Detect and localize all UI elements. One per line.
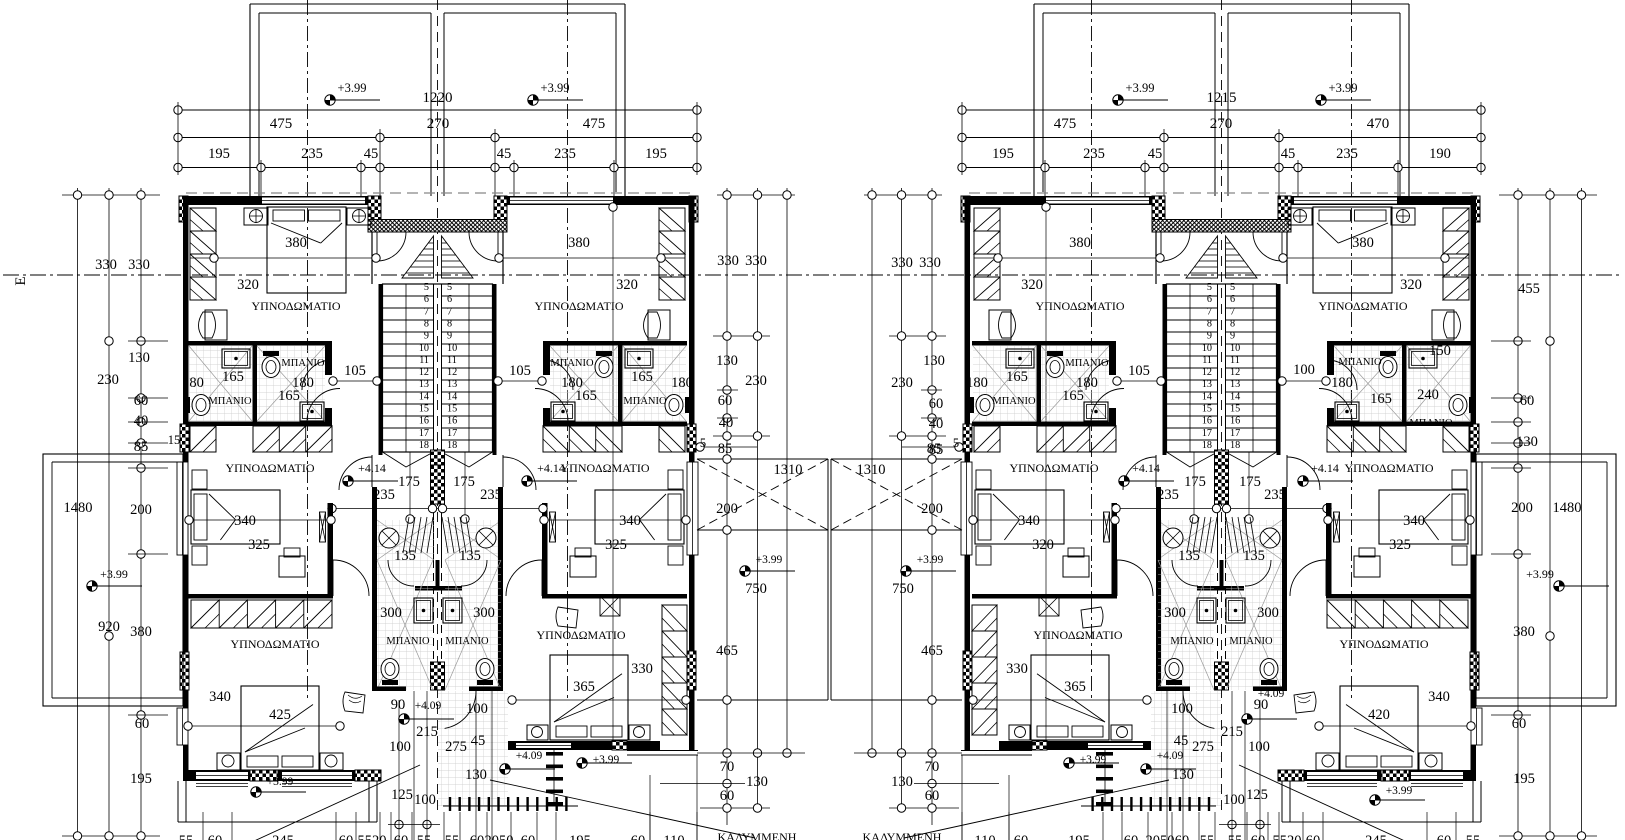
svg-text:45: 45	[1174, 733, 1189, 749]
svg-text:+4.14: +4.14	[1311, 461, 1339, 475]
veranda slab double line	[627, 750, 698, 752]
svg-text:+4.09: +4.09	[516, 750, 543, 762]
svg-text:195: 195	[208, 146, 230, 162]
ground slab below left unit	[178, 821, 377, 823]
svg-text:85: 85	[134, 439, 149, 455]
svg-text:16: 16	[419, 416, 429, 427]
svg-text:18: 18	[419, 440, 429, 451]
svg-text:195: 195	[130, 771, 152, 787]
svg-text:380: 380	[568, 235, 590, 251]
svg-text:235: 235	[1336, 146, 1358, 162]
svg-text:180: 180	[966, 375, 988, 391]
70/130/60 cluster right of building	[723, 779, 731, 787]
svg-text:8: 8	[1207, 318, 1212, 329]
svg-text:ΥΠΝΟΔΩΜΑΤΙΟ: ΥΠΝΟΔΩΜΑΤΙΟ	[1035, 299, 1124, 313]
svg-text:+3.99: +3.99	[917, 554, 944, 566]
right wall window	[687, 462, 698, 555]
stair treads	[383, 284, 493, 452]
bedside tables bottom bedroom	[217, 753, 240, 770]
left patio outer rectangle	[43, 454, 183, 706]
desk middle bedroom	[279, 556, 305, 577]
svg-text:465: 465	[716, 643, 738, 659]
svg-text:ΥΠΝΟΔΩΜΑΤΙΟ: ΥΠΝΟΔΩΜΑΤΙΟ	[534, 299, 623, 313]
hall dim 105 right unit	[497, 380, 543, 382]
svg-text:ΥΠΝΟΔΩΜΑΤΙΟ: ΥΠΝΟΔΩΜΑΤΙΟ	[1009, 461, 1098, 475]
svg-text:200: 200	[716, 501, 738, 517]
svg-text:10: 10	[1230, 343, 1240, 354]
svg-text:+4.14: +4.14	[358, 461, 386, 475]
bed bottom right unit 365	[550, 655, 628, 740]
bathroom divider wall	[253, 345, 258, 422]
svg-text:+4.14: +4.14	[537, 461, 565, 475]
svg-text:130: 130	[891, 774, 913, 790]
level markers +3.99/+4.09/+4.14	[325, 95, 380, 105]
svg-text:ΥΠΝΟΔΩΜΑΤΙΟ: ΥΠΝΟΔΩΜΑΤΙΟ	[225, 461, 314, 475]
svg-text:130: 130	[1172, 767, 1194, 783]
svg-text:130: 130	[716, 353, 738, 369]
svg-text:475: 475	[1054, 116, 1077, 132]
svg-text:15: 15	[1230, 404, 1240, 415]
svg-text:340: 340	[1403, 513, 1425, 529]
svg-text:5: 5	[1207, 282, 1212, 293]
svg-text:16: 16	[1202, 416, 1212, 427]
svg-text:180: 180	[671, 375, 693, 391]
svg-text:165: 165	[575, 388, 597, 404]
svg-text:ΜΠΑΝΙΟ: ΜΠΑΝΙΟ	[1229, 636, 1273, 647]
closet hatch band bottom bedroom	[191, 600, 332, 628]
dim row 475/270/475 y137	[178, 137, 697, 139]
svg-text:135: 135	[1178, 548, 1200, 564]
bathroom door arcs	[302, 360, 332, 390]
closet strip top bedroom right unit	[659, 208, 685, 300]
hall door arcs right unit	[506, 560, 542, 596]
svg-text:11: 11	[1230, 355, 1240, 366]
svg-text:195: 195	[1068, 833, 1090, 840]
svg-text:11: 11	[419, 355, 429, 366]
svg-text:18: 18	[1230, 440, 1240, 451]
bottom exterior wall left unit	[183, 770, 380, 781]
svg-text:ΜΠΑΝΙΟ: ΜΠΑΝΙΟ	[208, 396, 252, 407]
svg-text:105: 105	[344, 363, 366, 379]
svg-text:200: 200	[921, 501, 943, 517]
svg-text:270: 270	[1210, 116, 1233, 132]
corner insulation top-right	[689, 196, 698, 222]
svg-text:70: 70	[925, 759, 940, 775]
svg-text:110: 110	[974, 833, 995, 840]
svg-text:ΜΠΑΝΙΟ: ΜΠΑΝΙΟ	[445, 636, 489, 647]
svg-text:45: 45	[471, 733, 486, 749]
svg-text:100: 100	[414, 792, 436, 808]
svg-text:380: 380	[1069, 235, 1091, 251]
svg-text:320: 320	[616, 277, 638, 293]
pillow icon	[343, 692, 365, 713]
desk right unit	[570, 556, 596, 577]
svg-text:ΥΠΝΟΔΩΜΑΤΙΟ: ΥΠΝΟΔΩΜΑΤΙΟ	[230, 637, 319, 651]
svg-text:17: 17	[419, 428, 429, 439]
leader diagonal lines	[252, 765, 420, 840]
top exterior wall right wing	[497, 196, 694, 205]
svg-text:14: 14	[447, 391, 457, 402]
svg-text:5: 5	[447, 282, 452, 293]
svg-text:15: 15	[447, 404, 457, 415]
svg-text:195: 195	[645, 146, 667, 162]
svg-text:ΜΠΑΝΙΟ: ΜΠΑΝΙΟ	[281, 358, 325, 369]
svg-text:+3.99: +3.99	[541, 81, 570, 95]
svg-text:45: 45	[497, 146, 512, 162]
svg-text:1480: 1480	[1553, 500, 1582, 516]
bathroom band top wall	[188, 341, 332, 346]
svg-text:ΜΠΑΝΙΟ: ΜΠΑΝΙΟ	[1409, 418, 1453, 429]
bed middle bedroom 340	[191, 490, 280, 544]
svg-text:9: 9	[447, 331, 452, 342]
svg-text:9: 9	[424, 331, 429, 342]
svg-text:130: 130	[128, 350, 150, 366]
svg-text:470: 470	[1367, 116, 1390, 132]
svg-text:7: 7	[424, 306, 429, 317]
right wall insulation blocks	[687, 424, 696, 452]
svg-text:60: 60	[208, 833, 223, 840]
stair strings	[433, 284, 435, 452]
wall middle bedroom / hall	[328, 503, 334, 596]
svg-text:55: 55	[445, 833, 460, 840]
svg-text:180: 180	[1331, 375, 1353, 391]
svg-text:200: 200	[130, 502, 152, 518]
svg-text:135: 135	[1243, 548, 1265, 564]
svg-text:330: 330	[891, 255, 913, 271]
svg-text:9: 9	[1230, 331, 1235, 342]
svg-text:60: 60	[631, 833, 646, 840]
wall hall/middle bedroom right unit	[542, 503, 548, 596]
svg-text:165: 165	[1370, 391, 1392, 407]
svg-text:320: 320	[1400, 277, 1422, 293]
roof outline outer rectangle	[249, 4, 251, 196]
hall dim line 235 y508	[332, 508, 438, 510]
svg-text:12: 12	[1230, 367, 1240, 378]
svg-text:1480: 1480	[64, 500, 93, 516]
svg-text:330: 330	[631, 661, 653, 677]
svg-text:13: 13	[447, 379, 457, 390]
porch dim witness lines	[413, 691, 415, 840]
svg-text:ΥΠΝΟΔΩΜΑΤΙΟ: ΥΠΝΟΔΩΜΑΤΙΟ	[251, 299, 340, 313]
terrace columns top circles	[717, 194, 795, 196]
svg-text:60: 60	[929, 396, 944, 412]
svg-text:300: 300	[1257, 605, 1279, 621]
svg-text:60: 60	[339, 833, 354, 840]
svg-text:465: 465	[921, 643, 943, 659]
svg-text:320: 320	[1032, 537, 1054, 553]
stair recess crosshatch wall band	[368, 220, 507, 233]
bottom wall windows left unit	[196, 772, 248, 779]
landing door arc left unit	[377, 232, 406, 261]
svg-text:135: 135	[459, 548, 481, 564]
svg-text:60: 60	[718, 393, 733, 409]
svg-text:125: 125	[1246, 787, 1268, 803]
svg-text:165: 165	[1006, 369, 1028, 385]
left exterior wall	[183, 196, 189, 462]
svg-text:ΜΠΑΝΙΟ: ΜΠΑΝΙΟ	[550, 358, 594, 369]
svg-text:105: 105	[1128, 363, 1150, 379]
svg-text:14: 14	[1202, 391, 1212, 402]
svg-text:320: 320	[237, 277, 259, 293]
svg-text:5520: 5520	[358, 833, 387, 840]
svg-text:60: 60	[1014, 833, 1029, 840]
party wall lower checker sections	[431, 465, 445, 504]
entrance porch tiles	[438, 691, 508, 806]
roof outline inner left rectangle	[258, 13, 260, 196]
bedside tables and lamps top-left	[244, 208, 268, 225]
svg-text:13: 13	[1202, 379, 1212, 390]
svg-text:105: 105	[509, 363, 531, 379]
svg-text:55: 55	[179, 833, 194, 840]
svg-text:+3.99: +3.99	[593, 754, 620, 766]
svg-text:45: 45	[364, 146, 379, 162]
svg-text:130: 130	[465, 767, 487, 783]
dim line through bed y520	[188, 519, 333, 521]
svg-text:16: 16	[1230, 416, 1240, 427]
svg-text:5: 5	[700, 436, 706, 450]
svg-text:ΜΠΑΝΙΟ: ΜΠΑΝΙΟ	[1170, 636, 1214, 647]
svg-text:1310: 1310	[774, 462, 803, 478]
toilet bathroom 2	[262, 357, 280, 378]
svg-text:60: 60	[720, 788, 735, 804]
svg-text:200: 200	[1511, 500, 1533, 516]
svg-text:330: 330	[95, 257, 117, 273]
unit centreline dash-dot x307	[307, 0, 309, 700]
desk with chair top-left unit	[205, 310, 227, 340]
corner insulation top-left	[179, 196, 188, 222]
svg-text:14: 14	[1230, 391, 1240, 402]
svg-text:ΜΠΑΝΙΟ: ΜΠΑΝΙΟ	[386, 636, 430, 647]
left wall window upper	[177, 462, 188, 555]
hall dim 235 right unit	[438, 508, 544, 510]
svg-text:275: 275	[445, 739, 467, 755]
terrace dim columns	[726, 188, 728, 825]
svg-text:60: 60	[1520, 393, 1535, 409]
svg-text:60: 60	[925, 788, 940, 804]
svg-text:+3.99: +3.99	[1080, 754, 1107, 766]
svg-text:17: 17	[447, 428, 457, 439]
svg-text:10: 10	[447, 343, 457, 354]
svg-text:135: 135	[394, 548, 416, 564]
svg-text:60: 60	[135, 716, 150, 732]
svg-text:40: 40	[929, 416, 944, 432]
bed middle bedroom right unit	[595, 490, 684, 544]
stair bottom arrows	[383, 452, 434, 467]
desk with chair top right unit	[648, 310, 670, 340]
bathroom/hall wall	[325, 345, 332, 375]
landing diagonal hatch	[403, 517, 409, 553]
svg-text:195: 195	[992, 146, 1014, 162]
svg-text:240: 240	[1417, 387, 1439, 403]
svg-text:230: 230	[97, 372, 119, 388]
svg-text:6: 6	[1207, 294, 1212, 305]
right exterior wall right unit	[689, 196, 695, 462]
stair enclosure side walls	[379, 284, 383, 455]
landing winder hatch left	[402, 236, 434, 278]
svg-text:175: 175	[398, 474, 420, 490]
svg-text:15: 15	[419, 404, 429, 415]
svg-text:+3.99: +3.99	[1329, 81, 1358, 95]
svg-text:2050: 2050	[485, 833, 514, 840]
svg-text:165: 165	[1062, 388, 1084, 404]
svg-text:ΜΠΑΝΙΟ: ΜΠΑΝΙΟ	[1065, 358, 1109, 369]
svg-text:330: 330	[745, 253, 767, 269]
svg-text:180: 180	[182, 375, 204, 391]
grid axis E horizontal dash-dot line	[3, 274, 1622, 276]
svg-text:60: 60	[1175, 833, 1190, 840]
unit centreline dash-dot x567	[567, 0, 569, 700]
svg-text:365: 365	[573, 679, 595, 695]
closet hatch above middle bedroom	[253, 426, 332, 452]
svg-text:230: 230	[745, 373, 767, 389]
svg-text:380: 380	[285, 235, 307, 251]
svg-text:15: 15	[168, 433, 181, 447]
svg-text:+3.99: +3.99	[267, 776, 294, 788]
svg-text:330: 330	[919, 255, 941, 271]
landing side walls	[371, 232, 373, 284]
svg-text:100: 100	[466, 701, 488, 717]
bedside tables right unit middle bedroom	[668, 470, 683, 489]
svg-text:60: 60	[1251, 833, 1266, 840]
svg-text:45: 45	[1281, 146, 1296, 162]
stair recess checker columns	[368, 196, 381, 232]
svg-text:300: 300	[1164, 605, 1186, 621]
svg-text:235: 235	[301, 146, 323, 162]
landing door arc right unit	[469, 232, 498, 261]
svg-text:165: 165	[222, 369, 244, 385]
dim row 1220 y110	[178, 109, 697, 111]
bedroom dim line y258	[190, 257, 378, 259]
dim row 195/235/45 y167	[178, 167, 697, 169]
party wall checker at stair bottom	[431, 450, 445, 465]
svg-text:190: 190	[1429, 146, 1451, 162]
svg-text:100: 100	[1171, 701, 1193, 717]
svg-text:300: 300	[380, 605, 402, 621]
svg-text:8: 8	[1230, 318, 1235, 329]
lower bathroom bottom walls	[372, 687, 406, 692]
night stand with X right unit	[600, 596, 620, 616]
svg-text:300: 300	[473, 605, 495, 621]
svg-text:ΥΠΝΟΔΩΜΑΤΙΟ: ΥΠΝΟΔΩΜΑΤΙΟ	[536, 628, 625, 642]
svg-text:165: 165	[631, 369, 653, 385]
dim line bottom right unit	[510, 699, 690, 701]
hall door arc from landing	[339, 457, 372, 490]
bottom exterior wall right unit	[508, 741, 660, 750]
svg-text:12: 12	[419, 367, 429, 378]
top wall window left wing	[262, 198, 365, 204]
svg-text:175: 175	[453, 474, 475, 490]
left dim columns	[77, 188, 79, 836]
svg-text:330: 330	[717, 253, 739, 269]
svg-text:ΜΠΑΝΙΟ: ΜΠΑΝΙΟ	[623, 396, 667, 407]
svg-text:125: 125	[391, 787, 413, 803]
svg-text:455: 455	[1518, 281, 1540, 297]
lower bathroom door arcs	[388, 560, 414, 586]
svg-text:45: 45	[1148, 146, 1163, 162]
bedside tables bottom right unit	[527, 725, 548, 740]
svg-text:245: 245	[272, 833, 294, 840]
radiator right unit	[550, 512, 556, 542]
svg-text:E: E	[13, 276, 29, 285]
middle bedroom bottom wall	[188, 594, 333, 599]
svg-text:230: 230	[891, 375, 913, 391]
outside steps comb	[449, 797, 451, 811]
svg-text:6: 6	[447, 294, 452, 305]
svg-text:100: 100	[1293, 362, 1315, 378]
svg-text:16: 16	[447, 416, 457, 427]
svg-text:475: 475	[583, 116, 606, 132]
svg-text:10: 10	[419, 343, 429, 354]
roof overhang dashed line	[186, 192, 694, 194]
svg-text:85: 85	[718, 441, 733, 457]
svg-text:55: 55	[417, 833, 432, 840]
lower bathroom sinks	[414, 598, 433, 623]
dim 85 tick near terrace top	[697, 446, 757, 448]
svg-text:ΜΠΑΝΙΟ: ΜΠΑΝΙΟ	[1338, 357, 1382, 368]
svg-text:60: 60	[1437, 833, 1452, 840]
pillow icon right unit	[556, 607, 578, 628]
svg-text:275: 275	[1192, 739, 1214, 755]
svg-text:325: 325	[1389, 537, 1411, 553]
svg-text:5: 5	[424, 282, 429, 293]
svg-text:6: 6	[424, 294, 429, 305]
svg-text:+4.14: +4.14	[1132, 461, 1160, 475]
svg-text:12: 12	[447, 367, 457, 378]
terrace boundary	[697, 458, 828, 460]
svg-text:11: 11	[1202, 355, 1212, 366]
svg-text:8: 8	[447, 318, 452, 329]
left wall window lower	[177, 708, 188, 745]
svg-text:365: 365	[1064, 679, 1086, 695]
sink bathroom 2	[300, 402, 324, 421]
svg-text:320: 320	[1021, 277, 1043, 293]
top exterior wall left wing	[183, 196, 380, 205]
svg-text:60: 60	[470, 833, 485, 840]
svg-text:750: 750	[892, 581, 914, 597]
svg-text:17: 17	[1230, 428, 1240, 439]
window sill lines below bottom wall	[196, 783, 248, 785]
lower bathroom tiled floors	[377, 560, 433, 690]
svg-text:175: 175	[1184, 474, 1206, 490]
svg-text:340: 340	[619, 513, 641, 529]
svg-text:ΥΠΝΟΔΩΜΑΤΙΟ: ΥΠΝΟΔΩΜΑΤΙΟ	[1318, 299, 1407, 313]
svg-text:14: 14	[419, 391, 429, 402]
svg-text:330: 330	[1006, 661, 1028, 677]
witness vertical x613 right unit	[612, 205, 614, 741]
bedside tables middle bedroom	[192, 470, 207, 489]
svg-text:10: 10	[1202, 343, 1212, 354]
svg-text:425: 425	[269, 707, 291, 723]
party wall centreline dashed	[437, 0, 439, 812]
svg-text:235: 235	[1264, 487, 1286, 503]
svg-text:100: 100	[1248, 739, 1270, 755]
svg-text:330: 330	[128, 257, 150, 273]
T walls landing/lower bathrooms	[415, 586, 462, 591]
svg-text:165: 165	[278, 388, 300, 404]
svg-text:380: 380	[130, 624, 152, 640]
svg-text:235: 235	[1157, 487, 1179, 503]
closet strip top-left bedroom	[190, 208, 216, 300]
svg-text:60: 60	[1512, 716, 1527, 732]
svg-text:1220: 1220	[423, 90, 453, 106]
svg-text:ΥΠΝΟΔΩΜΑΤΙΟ: ΥΠΝΟΔΩΜΑΤΙΟ	[1033, 628, 1122, 642]
closet hatch right unit middle bedroom	[543, 426, 622, 452]
svg-text:100: 100	[389, 739, 411, 755]
witness verticals top dims	[177, 102, 179, 175]
svg-text:130: 130	[746, 774, 768, 790]
bathroom band right unit	[543, 341, 687, 346]
hall door arc to middle bedroom	[333, 560, 369, 596]
